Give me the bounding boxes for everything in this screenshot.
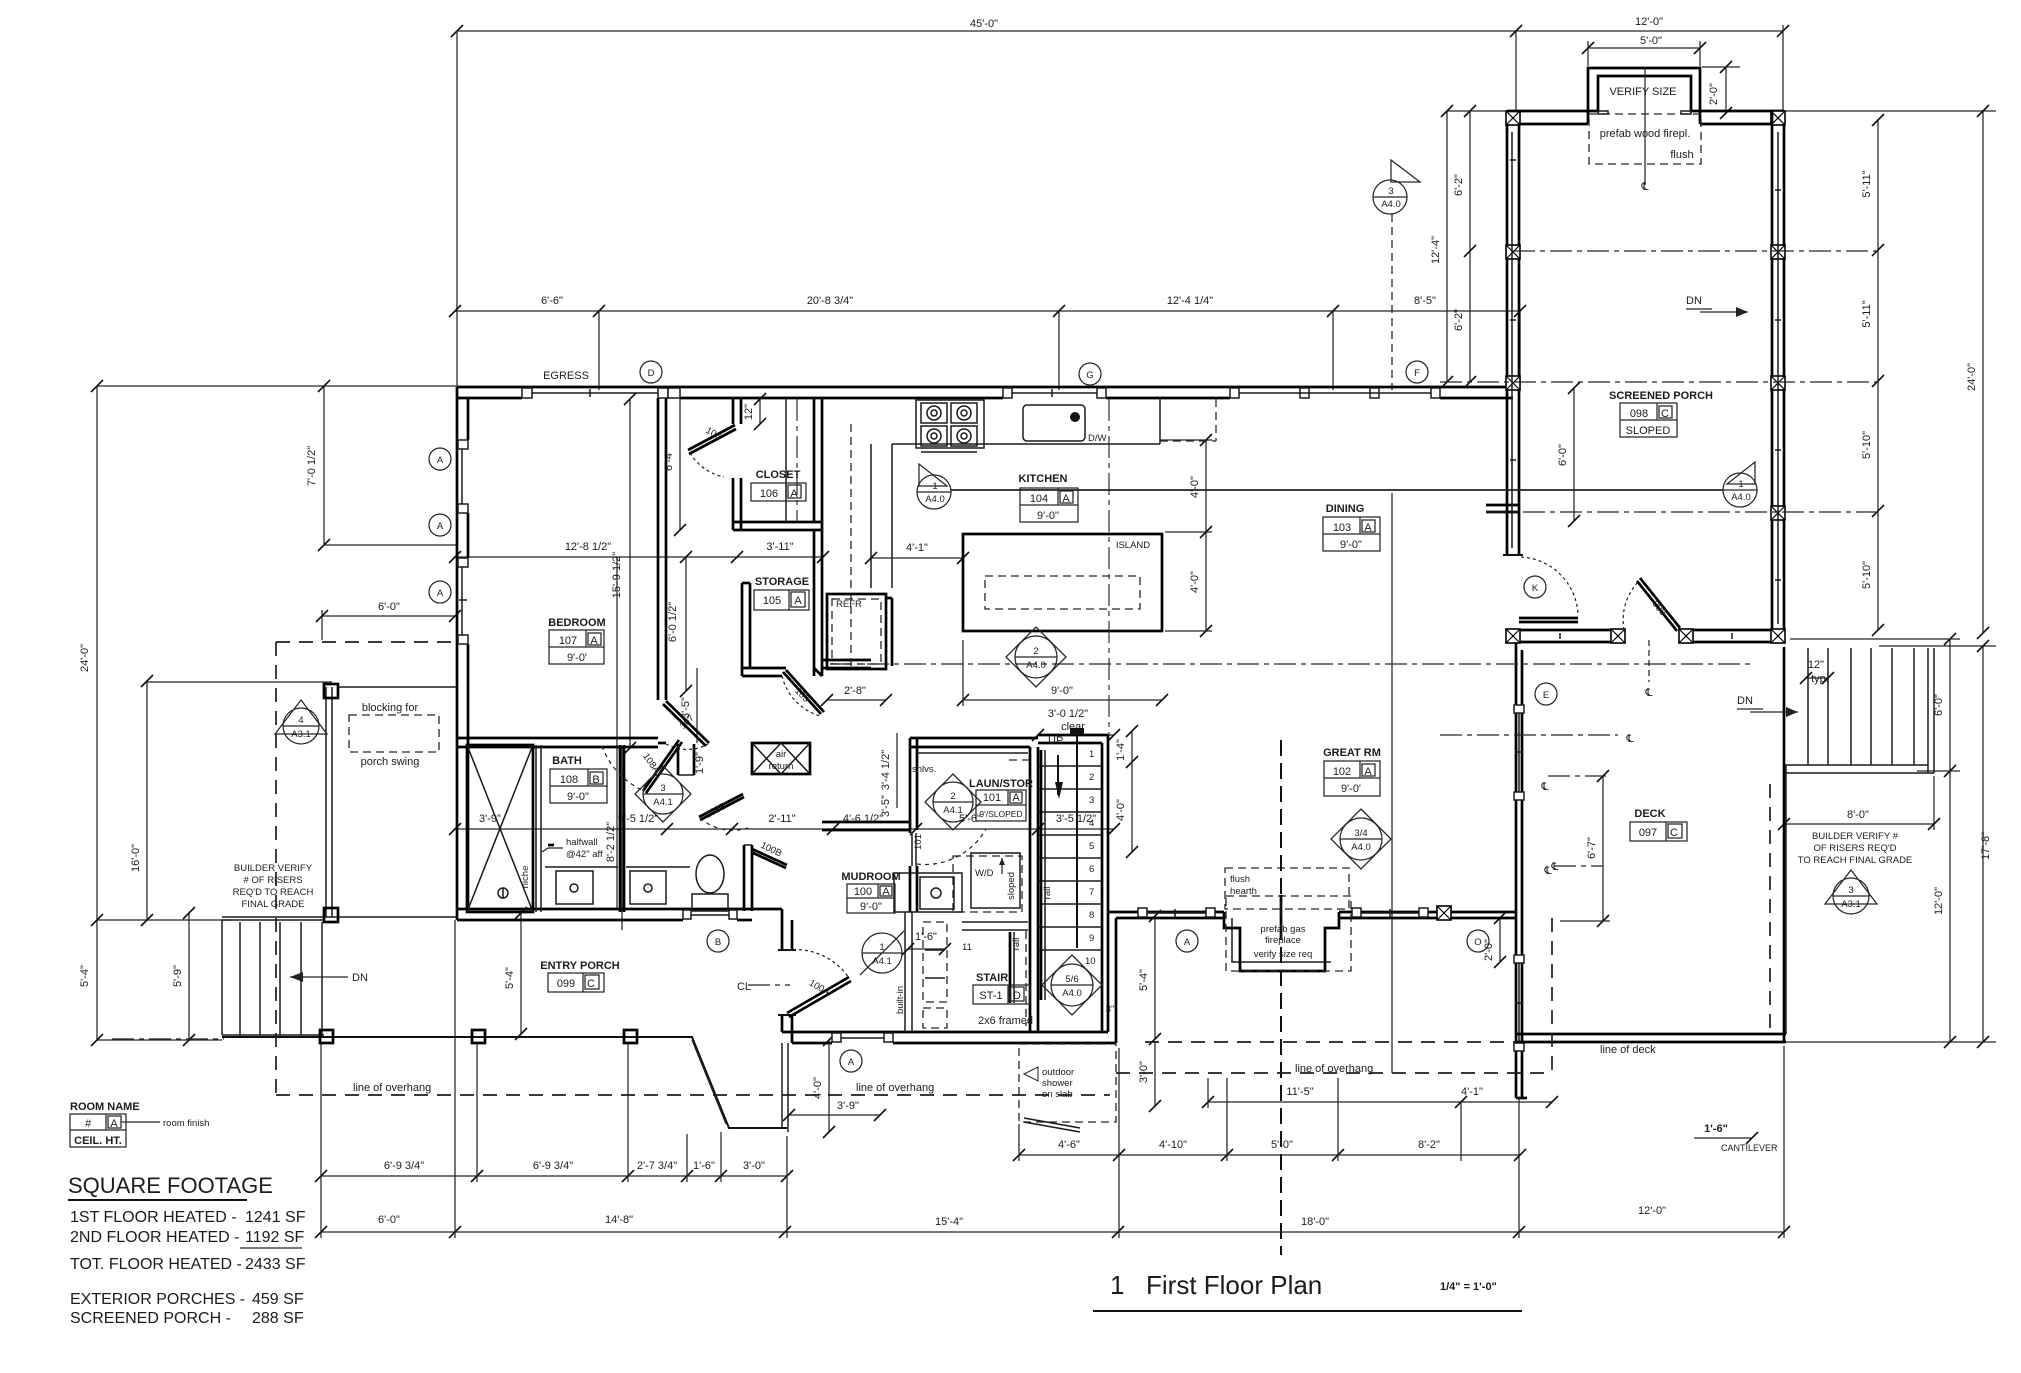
svg-text:D: D — [1013, 990, 1021, 1002]
svg-text:C: C — [1661, 408, 1669, 420]
svg-text:A: A — [437, 521, 444, 532]
svg-text:built-in: built-in — [895, 986, 906, 1014]
screened porch west wall — [1506, 111, 1509, 555]
south wall mudroom/stair — [782, 1031, 1108, 1034]
svg-text:REFR: REFR — [836, 599, 862, 610]
callout 1/A4.1 — [860, 931, 904, 975]
screened porch north wall — [1507, 110, 1588, 113]
storage 105 — [741, 583, 744, 676]
porch dims 6'-2"/6'-2" and 12'-4" — [1469, 111, 1471, 382]
entry porch slab edge — [222, 1037, 787, 1128]
svg-text:8'-2 1/2": 8'-2 1/2" — [605, 822, 617, 862]
svg-text:rail: rail — [1042, 887, 1053, 900]
dim 8'-2 1/2" — [621, 748, 623, 930]
svg-text:return: return — [769, 761, 794, 772]
svg-text:A4.0: A4.0 — [1731, 492, 1751, 503]
svg-text:9'-0": 9'-0" — [1340, 539, 1362, 551]
shower — [467, 745, 533, 912]
svg-text:A4.0: A4.0 — [1351, 842, 1371, 853]
svg-text:verify size req: verify size req — [1254, 949, 1313, 960]
callout 3/A3.1 — [1825, 870, 1877, 914]
svg-text:3: 3 — [1089, 795, 1094, 806]
svg-text:1/4" = 1'-0": 1/4" = 1'-0" — [1440, 1281, 1497, 1293]
section marker 1/A4.0 kitchen — [917, 475, 951, 509]
dim 9'-0" island — [963, 699, 1162, 701]
svg-text:D/W: D/W — [1088, 433, 1107, 444]
svg-text:F: F — [1414, 368, 1420, 379]
east wall house (deck side) — [1515, 642, 1518, 1098]
svg-text:2'-8": 2'-8" — [844, 685, 866, 697]
dim 4'-1" kitchen — [871, 557, 963, 559]
svg-text:3'-11": 3'-11" — [766, 541, 793, 553]
dim 4'-0"/4'-0" island vertical — [1205, 440, 1207, 631]
svg-text:MUDROOM: MUDROOM — [841, 871, 900, 883]
svg-text:5: 5 — [1089, 841, 1094, 852]
svg-text:3/4: 3/4 — [1354, 828, 1367, 839]
svg-text:6'-9 3/4": 6'-9 3/4" — [533, 1160, 573, 1172]
svg-text:3'-5": 3'-5" — [880, 795, 892, 817]
svg-text:4'-1": 4'-1" — [1461, 1086, 1483, 1098]
svg-text:7'-0 1/2": 7'-0 1/2" — [306, 446, 318, 486]
svg-text:5'-0": 5'-0" — [1640, 35, 1662, 47]
svg-text:UP: UP — [1048, 735, 1063, 747]
svg-text:GREAT RM: GREAT RM — [1323, 747, 1381, 759]
svg-text:24'-0": 24'-0" — [1966, 363, 1978, 391]
stove — [916, 400, 984, 448]
extension line left wall top — [456, 31, 458, 386]
svg-text:EXTERIOR PORCHES -: EXTERIOR PORCHES - — [70, 1291, 245, 1308]
left porch steps — [222, 920, 324, 1037]
svg-text:5'-11": 5'-11" — [1861, 300, 1873, 327]
svg-text:100: 100 — [854, 886, 872, 898]
left porch rail and posts — [331, 687, 333, 917]
svg-text:First Floor Plan: First Floor Plan — [1146, 1270, 1322, 1300]
svg-text:1: 1 — [1089, 749, 1094, 760]
grid circle O — [1467, 930, 1489, 952]
svg-text:288 SF: 288 SF — [252, 1310, 304, 1327]
svg-text:5'-11": 5'-11" — [1861, 170, 1873, 197]
right side: 6'-0" and 12'-0" deck — [1949, 639, 1951, 1042]
svg-text:4: 4 — [298, 715, 303, 726]
svg-text:O: O — [1474, 937, 1481, 948]
svg-text:2: 2 — [1089, 772, 1094, 783]
bath/wc divider — [619, 745, 622, 912]
svg-text:12'-0": 12'-0" — [1933, 887, 1945, 915]
svg-text:9'-0": 9'-0" — [567, 791, 589, 803]
extension lines bottom — [320, 1044, 322, 1238]
svg-text:A: A — [790, 488, 798, 500]
entry door east wall jog — [781, 909, 784, 950]
svg-text:15'-9 1/2": 15'-9 1/2" — [611, 552, 623, 598]
svg-text:1: 1 — [932, 481, 937, 492]
svg-text:rail: rail — [1011, 938, 1022, 951]
hall wall to kitchen — [822, 659, 871, 662]
svg-text:4'-0": 4'-0" — [1189, 476, 1201, 498]
svg-text:prefab wood firepl.: prefab wood firepl. — [1600, 128, 1691, 140]
dim 7'-0 1/2" — [323, 386, 325, 545]
svg-text:D: D — [648, 368, 655, 379]
left side 24'-0" and 5'-4" — [96, 386, 98, 1040]
svg-text:6'-0": 6'-0" — [1557, 444, 1569, 466]
dim 5'-0" fireplace — [1588, 47, 1700, 49]
up arrow — [1070, 728, 1084, 735]
svg-text:9'-0": 9'-0" — [1037, 510, 1059, 522]
svg-text:104: 104 — [1030, 493, 1048, 505]
svg-text:STAIR: STAIR — [976, 972, 1008, 984]
svg-text:CEIL. HT.: CEIL. HT. — [74, 1135, 122, 1147]
svg-text:on slab: on slab — [1042, 1089, 1073, 1100]
svg-text:3'-0": 3'-0" — [1138, 1061, 1150, 1083]
grid circle A4 — [840, 1050, 862, 1072]
door 108A — [643, 740, 679, 791]
svg-text:5'-10": 5'-10" — [1861, 561, 1873, 589]
svg-text:DN: DN — [1686, 295, 1702, 307]
dim row porch 6'-9 3/4" etc — [321, 1175, 787, 1177]
svg-text:14'-8": 14'-8" — [605, 1214, 633, 1226]
toilet — [692, 894, 728, 911]
grid circle D — [640, 361, 662, 383]
svg-text:C: C — [1670, 827, 1678, 839]
svg-text:8'-0": 8'-0" — [1847, 809, 1869, 821]
dim 12" typ stair tread — [1806, 677, 1828, 679]
dim 6'-0 1/2" vertical — [685, 557, 687, 691]
callout 2/A4.0 diamond — [1006, 627, 1066, 687]
laundry shelves dash — [1008, 759, 1030, 761]
svg-text:B: B — [715, 937, 721, 948]
dim 12" — [759, 399, 761, 424]
grid/center lines — [1513, 250, 1878, 252]
svg-text:DINING: DINING — [1326, 503, 1365, 515]
svg-text:5'-9": 5'-9" — [172, 965, 184, 987]
svg-text:20'-8 3/4": 20'-8 3/4" — [807, 295, 853, 307]
window bedroom 1 west wall — [458, 440, 468, 513]
screened porch south wall — [1507, 629, 1624, 632]
svg-text:2: 2 — [950, 791, 955, 802]
svg-text:G: G — [1086, 370, 1093, 381]
svg-text:A: A — [1364, 766, 1372, 778]
svg-text:℄: ℄ — [1550, 861, 1558, 873]
svg-text:12'-4 1/4": 12'-4 1/4" — [1167, 295, 1213, 307]
grid circle B — [707, 930, 729, 952]
dim 3'-5" bedroom door — [696, 668, 698, 743]
window dining in north wall — [1230, 388, 1440, 398]
callout 2/A4.1 diamond — [925, 774, 981, 830]
bath north wall — [457, 737, 658, 740]
svg-text:VERIFY SIZE: VERIFY SIZE — [1609, 86, 1676, 98]
kitchen counter — [892, 443, 1160, 445]
svg-text:105: 105 — [763, 595, 781, 607]
svg-text:2: 2 — [1033, 646, 1038, 657]
svg-text:6'-6": 6'-6" — [541, 295, 563, 307]
svg-text:17'-8": 17'-8" — [1980, 832, 1992, 860]
svg-text:℄: ℄ — [1625, 733, 1633, 745]
west wall of house — [456, 387, 459, 920]
svg-text:TO REACH FINAL GRADE: TO REACH FINAL GRADE — [1798, 855, 1913, 866]
left 16'-0" — [146, 681, 148, 920]
svg-text:2ND FLOOR HEATED -: 2ND FLOOR HEATED - — [70, 1229, 240, 1246]
svg-text:11'-5": 11'-5" — [1286, 1086, 1313, 1098]
svg-text:A: A — [110, 1118, 118, 1130]
wall stub dining east — [1486, 504, 1519, 507]
bath vanity — [545, 866, 618, 868]
svg-text:halfwall: halfwall — [566, 837, 598, 848]
door 100B — [699, 794, 743, 817]
laundry walls — [1029, 747, 1032, 1032]
south wall bath w/ window — [457, 908, 782, 911]
air return — [752, 743, 810, 774]
svg-text:6'-2": 6'-2" — [1453, 309, 1465, 331]
svg-text:BATH: BATH — [552, 755, 582, 767]
svg-text:CL: CL — [737, 981, 751, 993]
svg-text:fireplace: fireplace — [1265, 935, 1301, 946]
svg-text:16'-0": 16'-0" — [130, 844, 142, 872]
screened porch east wall — [1771, 111, 1774, 642]
svg-text:6'-0": 6'-0" — [378, 1214, 400, 1226]
door 105 — [786, 670, 824, 712]
dim 6'-0" porch swing — [322, 615, 455, 617]
dim 5'-4" / 3'-0" mudroom right — [1154, 916, 1156, 1039]
svg-text:A: A — [1012, 792, 1020, 804]
porch swing blocking — [349, 715, 439, 752]
svg-text:A4.0: A4.0 — [925, 494, 945, 505]
dim 2'-8" refr — [827, 699, 886, 701]
svg-text:BUILDER VERIFY #: BUILDER VERIFY # — [1812, 831, 1899, 842]
svg-text:5'-4": 5'-4" — [504, 967, 516, 989]
svg-text:3: 3 — [1848, 885, 1853, 896]
svg-text:shower: shower — [1042, 1078, 1073, 1089]
svg-text:15'-4": 15'-4" — [935, 1216, 963, 1228]
svg-text:KITCHEN: KITCHEN — [1019, 473, 1068, 485]
svg-text:A: A — [1364, 522, 1372, 534]
kitchen sink — [1023, 405, 1085, 441]
window east wall 1 — [1514, 705, 1524, 800]
porch dim 6'-0" — [1573, 388, 1575, 521]
svg-text:line of overhang: line of overhang — [856, 1082, 934, 1094]
window kitchen in north wall — [1003, 388, 1106, 398]
svg-text:A4.0: A4.0 — [1062, 988, 1082, 999]
svg-text:6: 6 — [1089, 864, 1094, 875]
left 5'-9" — [188, 913, 190, 1040]
closet 106 west wall — [732, 398, 735, 424]
svg-text:099: 099 — [557, 978, 575, 990]
svg-text:typ.: typ. — [1811, 673, 1829, 685]
wall hall/mudroom — [822, 821, 910, 824]
svg-text:outdoor: outdoor — [1042, 1067, 1074, 1078]
svg-text:A3.1: A3.1 — [291, 729, 311, 740]
window mudroom south — [832, 1033, 893, 1042]
dim 3'-0 1/2" clear stair — [1038, 734, 1114, 736]
svg-text:9'-0': 9'-0' — [567, 652, 587, 664]
svg-text:102: 102 — [1333, 766, 1351, 778]
section marker 1/A4.0 right — [1723, 473, 1757, 507]
section line 1/A4.0 — [951, 489, 1723, 491]
grid circle A5 — [1176, 930, 1198, 952]
svg-text:5'-0": 5'-0" — [1271, 1139, 1293, 1151]
svg-text:flush: flush — [1670, 149, 1693, 161]
bedroom east wall — [657, 398, 660, 700]
svg-text:ISLAND: ISLAND — [1116, 540, 1150, 551]
bottom dim row 6'-0"/14'-8"/15'-4"/18'-0"/12'-0" — [321, 1231, 1784, 1233]
door porch/dining (K) — [1503, 554, 1523, 556]
flush hearth dashed — [1225, 868, 1349, 909]
svg-text:8'-2": 8'-2" — [1418, 1139, 1440, 1151]
prefab gas fireplace bump-out — [1224, 912, 1339, 971]
svg-text:CLOSET: CLOSET — [756, 469, 801, 481]
svg-text:12'-0": 12'-0" — [1638, 1205, 1666, 1217]
svg-text:BUILDER VERIFY: BUILDER VERIFY — [234, 863, 313, 874]
svg-text:sloped: sloped — [1006, 872, 1017, 900]
svg-text:5'-4": 5'-4" — [79, 965, 91, 987]
svg-text:ENTRY PORCH: ENTRY PORCH — [540, 960, 620, 972]
svg-text:prefab gas: prefab gas — [1261, 924, 1306, 935]
door 107 bedroom — [666, 701, 709, 743]
dim 3'-9" ramp — [789, 1114, 880, 1116]
svg-text:9'-0': 9'-0' — [1341, 783, 1361, 795]
svg-text:107: 107 — [559, 635, 577, 647]
svg-text:# OF RISERS: # OF RISERS — [243, 875, 302, 886]
chase dashed line — [796, 399, 798, 522]
hall dim row 9'-5 1/2" ... — [455, 828, 1114, 830]
callout 3/4 A4.0 diamond — [1331, 809, 1391, 869]
svg-text:air: air — [776, 749, 787, 760]
svg-text:blocking for: blocking for — [362, 702, 419, 714]
svg-text:8: 8 — [1089, 910, 1094, 921]
svg-text:A: A — [794, 595, 802, 607]
svg-text:SCREENED PORCH: SCREENED PORCH — [1609, 390, 1713, 402]
dim row 12'-8 1/2" / 3'-11" — [455, 556, 823, 558]
svg-text:4: 4 — [1089, 818, 1094, 829]
svg-text:1'-4": 1'-4" — [1115, 739, 1127, 761]
svg-text:103: 103 — [1333, 522, 1351, 534]
svg-text:5'-4": 5'-4" — [1138, 969, 1150, 991]
svg-text:ST-1: ST-1 — [979, 990, 1002, 1002]
right side: 17'-8" — [1982, 646, 1984, 1042]
svg-text:@42" aff: @42" aff — [566, 849, 603, 860]
svg-text:B: B — [592, 774, 599, 786]
svg-text:4'-10": 4'-10" — [1159, 1139, 1187, 1151]
dim 1'-6" built-in — [908, 948, 945, 950]
svg-text:12'-4": 12'-4" — [1430, 236, 1442, 264]
svg-text:DN: DN — [352, 972, 368, 984]
svg-text:1192 SF: 1192 SF — [245, 1229, 305, 1246]
svg-text:1: 1 — [1110, 1270, 1124, 1300]
svg-text:flush: flush — [1230, 874, 1250, 885]
svg-text:line of overhang: line of overhang — [1295, 1063, 1373, 1075]
svg-text:REQ'D TO REACH: REQ'D TO REACH — [233, 887, 314, 898]
svg-text:6'-9 3/4": 6'-9 3/4" — [384, 1160, 424, 1172]
svg-text:9'/SLOPED: 9'/SLOPED — [979, 809, 1022, 819]
svg-text:1: 1 — [879, 942, 884, 953]
svg-text:ROOM NAME: ROOM NAME — [70, 1101, 140, 1113]
grid circle A2 — [429, 514, 451, 536]
svg-text:E: E — [1543, 690, 1549, 701]
svg-text:EGRESS: EGRESS — [543, 370, 589, 382]
svg-text:A: A — [1062, 493, 1070, 505]
svg-text:45'-0": 45'-0" — [970, 18, 998, 30]
svg-text:DN: DN — [1737, 695, 1753, 707]
grid circle A3 — [429, 581, 451, 603]
built-in closet — [923, 922, 947, 1002]
svg-text:9'-0": 9'-0" — [1051, 685, 1073, 697]
island — [963, 534, 1162, 631]
svg-text:1'-6": 1'-6" — [1704, 1123, 1728, 1135]
svg-text:4'-6": 4'-6" — [1058, 1139, 1080, 1151]
porch posts — [320, 1030, 333, 1043]
door 098 porch/deck — [1640, 578, 1680, 628]
grid circle K — [1524, 576, 1546, 598]
window east wall 2 — [1514, 955, 1524, 1051]
svg-text:porch swing: porch swing — [361, 756, 420, 768]
svg-text:A: A — [590, 635, 598, 647]
halfwall — [548, 844, 554, 847]
window great rm 1 — [1138, 908, 1215, 917]
dim 1'-4" / 4'-0" stair right — [1131, 731, 1133, 852]
svg-text:LAUN/STOR: LAUN/STOR — [969, 778, 1033, 790]
svg-text:℄: ℄ — [1644, 687, 1652, 699]
svg-text:2433 SF: 2433 SF — [245, 1256, 306, 1273]
callout 3/A4.1 diamond — [635, 766, 691, 822]
callout 4/A3.1 — [275, 700, 327, 744]
dim 2'-0" fireplace depth — [1725, 67, 1727, 113]
svg-text:BEDROOM: BEDROOM — [548, 617, 605, 629]
dim 8'-0" deck stair — [1784, 823, 1934, 825]
svg-text:A4.0: A4.0 — [1026, 660, 1046, 671]
svg-text:TOT. FLOOR HEATED -: TOT. FLOOR HEATED - — [70, 1256, 242, 1273]
dim 15'-9 1/2" vertical — [629, 399, 631, 748]
lower stair run — [962, 921, 1028, 923]
svg-text:7: 7 — [1089, 887, 1094, 898]
svg-text:#: # — [85, 1118, 92, 1130]
window bedroom 2 west wall — [458, 558, 468, 644]
refrigerator — [827, 594, 886, 669]
south wall great room w/ windows and fireplace — [1108, 911, 1224, 914]
svg-text:FINAL GRADE: FINAL GRADE — [242, 899, 305, 910]
svg-text:1: 1 — [1738, 479, 1743, 490]
svg-text:A: A — [437, 455, 444, 466]
svg-text:459 SF: 459 SF — [252, 1291, 304, 1308]
svg-text:101: 101 — [983, 792, 1001, 804]
deck stair — [1785, 648, 1934, 773]
grid circle A1 — [429, 448, 451, 470]
mudroom shower pan — [894, 873, 962, 912]
dim 11'-5" / 4'-1" bottom right — [1208, 1101, 1552, 1103]
svg-text:A: A — [437, 588, 444, 599]
svg-text:line of deck: line of deck — [1600, 1044, 1656, 1056]
svg-text:6'-0": 6'-0" — [1933, 694, 1945, 716]
svg-text:OF RISERS REQ'D: OF RISERS REQ'D — [1813, 843, 1896, 854]
svg-text:line of overhang: line of overhang — [353, 1082, 431, 1094]
svg-text:2'-11": 2'-11" — [768, 813, 795, 825]
svg-text:097: 097 — [1639, 827, 1657, 839]
dim 1'-6" cantilever — [1694, 1137, 1752, 1139]
svg-text:12'-0": 12'-0" — [1635, 16, 1663, 28]
svg-text:12": 12" — [1808, 659, 1824, 671]
svg-text:SQUARE FOOTAGE: SQUARE FOOTAGE — [68, 1173, 273, 1198]
window egress in north wall — [522, 388, 680, 398]
svg-text:A3.1: A3.1 — [1841, 899, 1861, 910]
wc north wall stub — [677, 744, 680, 775]
right side: 24'-0" — [1784, 110, 1996, 112]
svg-text:room finish: room finish — [163, 1118, 209, 1129]
svg-text:A4.1: A4.1 — [943, 805, 963, 816]
svg-text:6'-2": 6'-2" — [1453, 174, 1465, 196]
svg-text:24'-0": 24'-0" — [79, 644, 91, 672]
svg-text:5/6: 5/6 — [1065, 974, 1078, 985]
svg-text:SLOPED: SLOPED — [1626, 425, 1671, 437]
svg-text:℄: ℄ — [1543, 865, 1551, 877]
svg-text:SCREENED PORCH -: SCREENED PORCH - — [70, 1310, 231, 1327]
svg-text:4'-1": 4'-1" — [906, 542, 928, 554]
